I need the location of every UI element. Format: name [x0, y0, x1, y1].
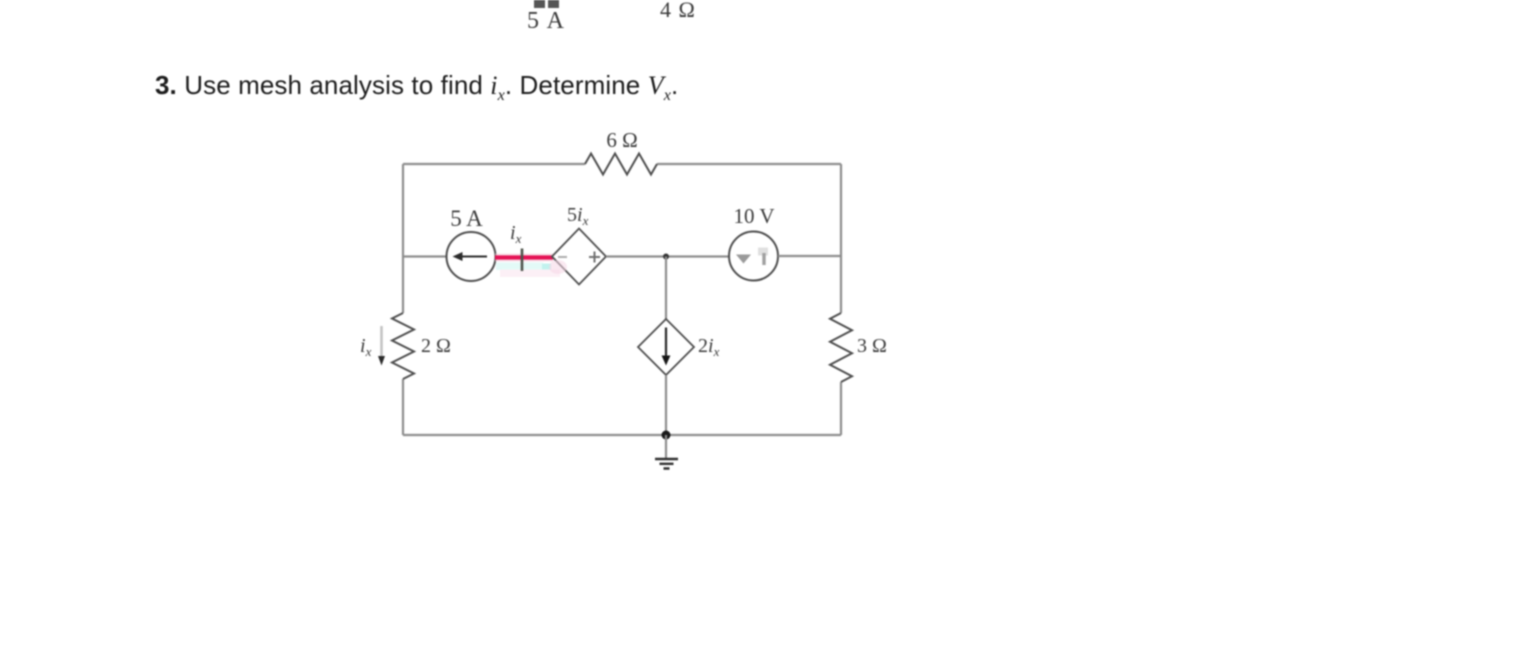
resistor R3 3 Ohm (right branch) [830, 313, 852, 382]
wire top left segment [403, 163, 585, 165]
minus mark inside 10V source [736, 255, 751, 264]
node A junction dot [663, 254, 669, 260]
wire right wall lower [840, 382, 842, 435]
svg-text:ix: ix [360, 335, 372, 359]
cut-off label 4 Ohm from previous figure [660, 0, 696, 23]
wire (red highlighted) from current source to dependent source [495, 254, 553, 262]
current source I1 circle [447, 232, 496, 281]
tick mark on red wire [521, 249, 524, 272]
wire middle branch upper [665, 257, 667, 320]
highlight cyan band under red wire [496, 263, 543, 271]
resistor R2 2 Ohm (left branch) [392, 313, 414, 379]
svg-text:5 A: 5 A [450, 206, 483, 231]
svg-text:10 V: 10 V [733, 204, 774, 228]
wire bottom [403, 434, 841, 436]
ground symbol [655, 459, 678, 469]
cut-off label 5 A from previous figure [527, 8, 566, 35]
svg-text:6 Ω: 6 Ω [606, 128, 637, 152]
wire left wall lower [402, 379, 404, 435]
problem heading text [155, 70, 678, 105]
current arrow i_x (left branch) [380, 326, 383, 357]
plus sign inside diamond [589, 252, 600, 263]
ground stub wire [665, 435, 667, 458]
cut-off symbol remnant above 5 A [534, 0, 545, 8]
svg-text:5ix: 5ix [567, 204, 589, 228]
wire middle branch lower [665, 375, 667, 435]
voltage source V1 10 V circle [729, 232, 778, 281]
svg-text:2ix: 2ix [698, 335, 720, 359]
pink highlight smudge at diamond left vertex [549, 260, 567, 274]
current source I1 arrow (points left) [460, 256, 487, 258]
wire right wall upper [840, 164, 842, 313]
resistor R1 6 Ohm (top) [585, 154, 657, 175]
minus sign inside diamond [558, 256, 567, 258]
wire left wall upper [402, 164, 404, 313]
dependent current source U2 diamond 2i_x [638, 319, 694, 375]
svg-text:3 Ω: 3 Ω [857, 335, 887, 357]
svg-text:2 Ω: 2 Ω [421, 335, 451, 357]
wire from dependent source to middle node [606, 255, 729, 257]
wire middle: left wall to current source [403, 255, 447, 257]
plus mark inside 10V source [758, 248, 768, 256]
wire from 10V source to right wall [778, 255, 841, 257]
wire top right segment [657, 163, 841, 165]
node B bottom junction dot [662, 431, 671, 440]
dependent voltage source U1 diamond 5i_x [552, 229, 606, 285]
arrow inside 2i_x diamond (points down) [665, 328, 667, 357]
svg-text:ix: ix [510, 222, 522, 246]
